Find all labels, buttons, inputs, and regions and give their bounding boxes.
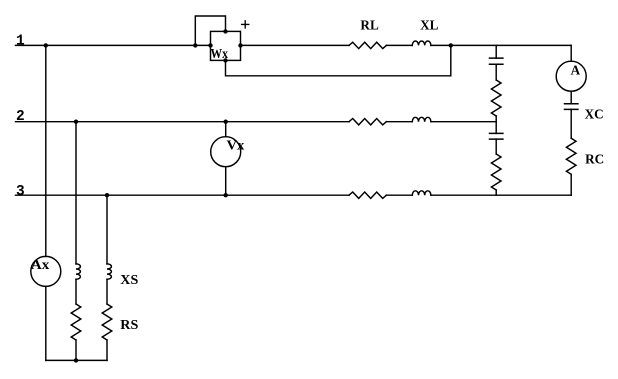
wattmeter Wx box	[211, 31, 241, 60]
wire right-left vertical upper (line3 down)	[106, 195, 108, 264]
node 1 label	[16, 33, 25, 49]
wire Vx bottom	[225, 167, 227, 196]
wire middle-left vertical upper (line2 down)	[75, 122, 77, 264]
inductor XS	[107, 264, 111, 279]
resistor middle branch lower	[491, 154, 501, 190]
wire line 1 middle	[241, 44, 350, 46]
wire left vertical upper (line1 to Ax)	[45, 45, 47, 256]
resistor line 2	[349, 119, 386, 125]
wire line 3 between resistor and inductor	[386, 194, 412, 196]
node 3 label	[16, 184, 25, 200]
wire XC to RC	[570, 109, 572, 138]
wire middle branch top	[495, 45, 497, 58]
wire line 1 right	[431, 44, 571, 46]
label XS	[120, 272, 138, 287]
label XL	[420, 17, 439, 32]
resistor RS	[102, 304, 112, 340]
bottom wire	[46, 359, 107, 361]
junction dot line3 / voltmeter Vx	[224, 193, 228, 197]
wire Vx top	[225, 122, 227, 137]
wire A to XC	[570, 91, 572, 104]
wire line 1 between RL and XL	[386, 44, 412, 46]
wire middle branch lower cap to resistor	[495, 139, 497, 154]
Wx voltage loop wire	[195, 16, 225, 45]
wire line 2 between resistor and inductor	[386, 121, 412, 123]
svg-text:3: 3	[16, 184, 25, 200]
wire middle branch bottom	[495, 190, 497, 195]
label Vx	[227, 137, 245, 152]
inductor line 2	[412, 117, 431, 121]
wire Wx bottom link	[226, 45, 451, 75]
Wx left terminal	[208, 43, 212, 47]
label A	[571, 62, 581, 77]
wire RC to line 3	[570, 174, 572, 195]
inductor middle-left vertical	[76, 264, 80, 279]
wire middle-left vertical between inductor and resistor	[75, 279, 77, 304]
junction dot bottom wire	[74, 358, 78, 362]
resistor middle-left vertical	[71, 304, 81, 340]
svg-text:A: A	[571, 62, 581, 77]
wire left vertical lower (Ax to bottom wire)	[45, 286, 47, 360]
inductor XL	[412, 41, 431, 45]
inductor line 3	[412, 191, 431, 195]
svg-text:1: 1	[16, 33, 25, 49]
capacitor middle branch upper	[490, 58, 503, 64]
resistor line 3	[349, 192, 386, 198]
Wx right terminal	[238, 43, 242, 47]
resistor RL	[349, 42, 386, 48]
svg-text:Wx: Wx	[211, 46, 229, 61]
wire middle branch to line 2	[495, 116, 497, 133]
Wx top terminal	[223, 29, 227, 33]
node 2 label	[16, 109, 25, 125]
junction dot line3 / right-left vertical	[105, 193, 109, 197]
label RC	[585, 152, 604, 167]
wire line 3 left	[16, 194, 350, 196]
wire line 1 left	[16, 44, 211, 46]
ammeter Ax	[31, 256, 61, 286]
capacitor middle branch lower	[490, 133, 503, 139]
label RS	[120, 317, 138, 332]
svg-text:RC: RC	[585, 152, 604, 167]
svg-text:Ax: Ax	[31, 257, 50, 272]
capacitor XC	[565, 104, 578, 110]
wire between XS and RS	[106, 279, 108, 304]
wire middle branch upper cap to resistor	[495, 64, 497, 80]
junction dot line2 / voltmeter Vx	[224, 120, 228, 124]
svg-text:RL: RL	[360, 17, 379, 32]
svg-text:RS: RS	[120, 317, 138, 332]
label Ax	[31, 257, 50, 272]
svg-text:Vx: Vx	[227, 137, 245, 152]
wire line 2 left	[16, 121, 350, 123]
label XC	[585, 107, 604, 122]
wire line 3 right	[431, 194, 571, 196]
wire middle-left vertical bottom	[75, 340, 77, 360]
junction dot line1 / Wx voltage loop	[193, 43, 197, 47]
label Wx	[211, 46, 229, 61]
junction dot line1 / left vertical	[44, 43, 48, 47]
svg-text:XC: XC	[585, 107, 604, 122]
+ polarity mark	[242, 21, 249, 28]
label RL	[360, 17, 379, 32]
wire right branch top corner	[570, 45, 572, 61]
ammeter A	[556, 61, 586, 91]
resistor RC	[566, 138, 576, 174]
svg-text:2: 2	[16, 109, 25, 125]
Wx bottom terminal	[223, 58, 227, 62]
wire RS to bottom wire	[106, 340, 108, 360]
svg-text:XL: XL	[420, 17, 439, 32]
wire line 2 right	[431, 121, 496, 123]
resistor middle branch upper	[491, 80, 501, 116]
svg-text:XS: XS	[120, 272, 138, 287]
junction dot line1 / Wx link	[449, 43, 453, 47]
junction dot line2 / middle left vertical	[74, 120, 78, 124]
voltmeter Vx	[211, 137, 241, 167]
